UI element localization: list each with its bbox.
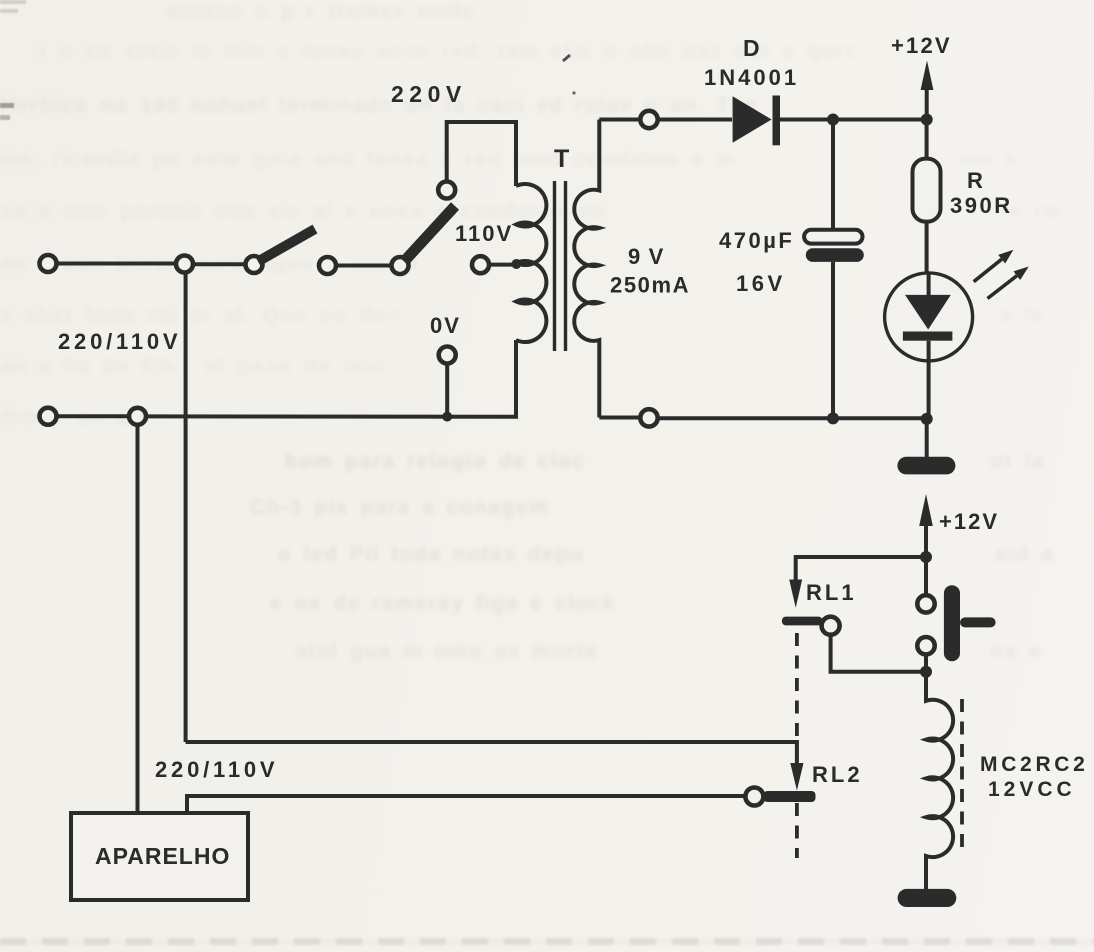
svg-text:250mA: 250mA: [610, 273, 690, 298]
wire: bottom tap vertical V2: [136, 425, 140, 814]
+12V arrow top: [925, 88, 929, 120]
svg-text:+12V: +12V: [891, 33, 952, 58]
node: 0V junction: [442, 412, 452, 422]
terminal left bottom: [40, 408, 57, 425]
RL1-RL2 dashed link: [795, 633, 799, 858]
RL1 contact bar: [782, 617, 823, 626]
RL2 arrow: [790, 763, 803, 791]
220V tap terminal: [438, 182, 455, 199]
wire: 0V drop: [445, 364, 449, 415]
svg-text:9 V: 9 V: [628, 244, 665, 269]
svg-text:0V: 0V: [430, 313, 461, 338]
svg-text:T: T: [554, 145, 569, 173]
wire: mains tap vertical V1: [184, 273, 188, 743]
switch pole 1 contact: [246, 256, 263, 273]
transformer T primary winding: [516, 184, 546, 342]
LED: [885, 273, 973, 361]
svg-text:110V: 110V: [455, 221, 513, 246]
wire: junction to RL1 arrow: [796, 557, 926, 580]
svg-text:MC2RC2: MC2RC2: [980, 753, 1089, 776]
wire: mains bottom: [57, 340, 516, 417]
wire: RL1 circle to coil node: [831, 635, 926, 672]
svg-text:390R: 390R: [950, 193, 1013, 218]
svg-text:RL1: RL1: [806, 580, 857, 605]
wire: secondary top to terminal: [599, 118, 640, 122]
switch S2 blade: [404, 206, 455, 262]
RL1 arrow: [789, 580, 802, 608]
svg-text:16V: 16V: [736, 271, 786, 296]
secondary bottom terminal: [640, 409, 657, 426]
ground bottom: [898, 889, 957, 907]
pushbutton lower contact: [917, 637, 934, 654]
terminal bottom tap: [129, 408, 146, 425]
pushbutton actuator: [944, 585, 960, 661]
wire: diode cathode to +12V node: [780, 118, 927, 122]
RL1 contact circle: [822, 617, 840, 635]
node: coil top junction: [920, 666, 932, 678]
capacitor C 470uF: [831, 125, 835, 418]
wire: RL2 feed wire: [186, 742, 797, 765]
pushbutton upper contact: [924, 557, 928, 595]
svg-text:220/110V: 220/110V: [155, 757, 278, 782]
svg-text:APARELHO: APARELHO: [95, 843, 230, 869]
switch S1 blade: [258, 229, 315, 262]
LED light arrow 1: [974, 259, 1002, 282]
ground top: [925, 419, 929, 458]
secondary top terminal: [640, 111, 657, 128]
speck: [563, 55, 570, 61]
wire: box to RL2 contact: [187, 796, 746, 813]
+12V arrow mid: [924, 524, 928, 557]
LED light arrow 2: [988, 276, 1017, 299]
svg-text:12VCC: 12VCC: [988, 778, 1076, 801]
node: cap junction bottom: [827, 412, 839, 424]
node: top wire tap: [176, 256, 193, 273]
wire: 220V tap to primary top: [447, 122, 516, 186]
RL2 contact bar: [764, 791, 816, 802]
svg-text:220V: 220V: [391, 81, 467, 107]
resistor R 390R: [925, 120, 929, 273]
relay coil MC2RC2: [926, 672, 953, 889]
node: 110V tap junction: [511, 259, 521, 269]
wire: mains top left segment: [57, 262, 176, 266]
svg-text:220/110V: 220/110V: [58, 329, 181, 354]
svg-text:+12V: +12V: [939, 509, 999, 534]
transformer secondary winding: [574, 120, 599, 418]
svg-text:R: R: [967, 168, 983, 193]
RL2 contact circle: [745, 788, 763, 806]
wire: secondary bottom: [599, 416, 926, 421]
wire: between switch contacts: [336, 264, 392, 268]
110V tap terminal: [472, 256, 489, 273]
transformer core: [555, 181, 566, 351]
switch throw contact: [319, 257, 336, 274]
svg-text:D: D: [743, 35, 760, 61]
wire: terminal to diode anode: [658, 118, 732, 122]
node: +12V mid junction: [920, 551, 932, 563]
wire: 110V tap: [489, 263, 513, 267]
0V terminal: [439, 347, 456, 364]
coil dashed frame: [960, 699, 964, 856]
diode D 1N4001: [733, 96, 772, 142]
svg-text:RL2: RL2: [812, 762, 863, 787]
wire: tap to switch pole 1: [194, 262, 246, 266]
APARELHO box: [71, 813, 248, 900]
svg-text:470µF: 470µF: [719, 228, 794, 253]
terminal left top: [40, 255, 57, 272]
svg-text:1N4001: 1N4001: [704, 65, 799, 90]
bottom page edge band: [0, 938, 1094, 945]
speck 2: [572, 91, 575, 94]
node: +12V rail junction: [921, 114, 933, 126]
node: cap junction top: [827, 114, 839, 126]
bleed-through rows: [165, 0, 476, 24]
left margin fragments: [0, 103, 14, 108]
switch pole 2 contact: [392, 257, 409, 274]
node: LED bottom junction: [921, 413, 933, 425]
